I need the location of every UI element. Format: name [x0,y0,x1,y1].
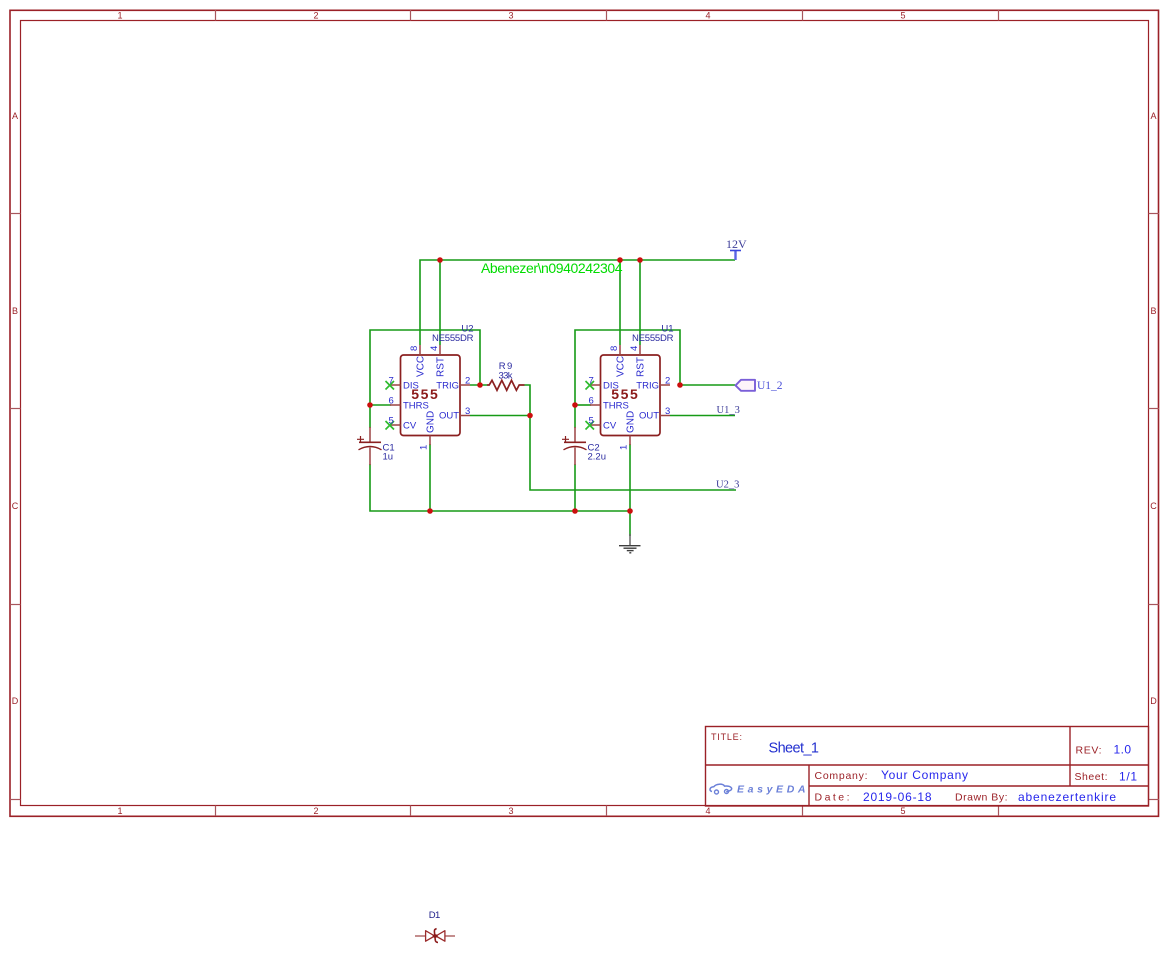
svg-text:U1_2: U1_2 [757,380,783,392]
U2 no-connect X pin7 [386,381,395,390]
wire bottom rail [430,510,630,512]
wire U1 TRIG to port [680,384,735,386]
svg-text:D1: D1 [429,910,441,921]
svg-text:NE555DR: NE555DR [632,333,674,344]
svg-text:THRS: THRS [603,401,629,412]
svg-text:4: 4 [629,346,640,351]
wire VCC top rail [420,260,735,345]
wire U2 OUT [470,415,530,417]
U1 pin 6 THRS [590,404,601,406]
svg-text:2.2u: 2.2u [588,452,607,463]
wire U2 RST to rail [439,260,441,345]
svg-text:A: A [1150,111,1156,121]
capacitor C2 [562,427,606,465]
svg-text:1: 1 [117,806,122,816]
U2 pin 6 THRS [390,404,401,406]
U2 pin 7 DIS [390,384,401,386]
power flag 12V [726,237,747,260]
svg-text:abenezertenkire: abenezertenkire [1018,790,1116,804]
svg-text:OUT: OUT [639,411,659,422]
wire U2 GND down [429,444,431,511]
wire C2 to bottom rail [574,464,576,511]
svg-text:GND: GND [626,411,637,433]
EasyEDA logo [710,784,806,796]
svg-text:2019-06-18: 2019-06-18 [863,790,932,804]
U2 pin 1 GND [429,436,431,446]
svg-text:5: 5 [900,806,905,816]
wire U1 RST to rail [639,260,641,345]
svg-text:1: 1 [419,445,430,450]
op-amp U2 body [401,355,461,436]
wire U2 THRS [370,404,391,406]
svg-text:TRIG: TRIG [636,381,659,392]
wire U1 THRS [575,404,591,406]
svg-text:RST: RST [436,357,447,377]
wire U2 TRIG to R9 [470,384,487,386]
svg-text:5: 5 [900,11,905,21]
svg-text:555: 555 [611,386,638,402]
svg-text:7: 7 [389,375,394,386]
U1 no-connect X pin7 [586,381,595,390]
svg-text:5: 5 [389,415,394,426]
op-amp U1 body [601,355,661,436]
svg-text:D: D [1150,696,1157,706]
svg-text:B: B [1150,306,1156,316]
wire U1 feedback THRS-TRIG [575,330,680,405]
U1 pin names [603,356,659,433]
wire R9 to OUT node [525,385,531,416]
svg-text:33k: 33k [499,371,513,382]
svg-text:TRIG: TRIG [436,381,459,392]
wire U1 THRS to C2 [574,405,576,428]
svg-text:3: 3 [665,406,670,417]
svg-text:1/1: 1/1 [1119,770,1137,784]
svg-text:VCC: VCC [616,356,627,377]
svg-text:12V: 12V [726,237,747,251]
svg-text:B: B [12,306,18,316]
svg-text:Sheet:: Sheet: [1075,771,1108,783]
svg-text:1: 1 [117,11,122,21]
svg-text:U2_3: U2_3 [716,480,739,491]
wire U1 VCC to rail [619,260,621,345]
svg-text:REV:: REV: [1076,744,1102,756]
svg-text:C: C [1150,501,1157,511]
svg-text:TITLE:: TITLE: [711,732,742,742]
U1 pin 1 GND [629,436,631,446]
svg-text:U1_3: U1_3 [717,405,740,416]
U1 pin 2 TRIG [660,384,670,386]
svg-text:8: 8 [609,346,620,351]
svg-text:3: 3 [508,11,513,21]
svg-text:8: 8 [409,346,420,351]
svg-text:3: 3 [465,406,470,417]
U2 pin 8 VCC [419,345,421,355]
wire U1 GND down [629,444,631,511]
wire C1 to bottom rail [370,464,430,511]
wire U2 THRS to C1 [369,405,371,428]
wire U2 feedback THRS-TRIG [370,330,480,405]
svg-text:4: 4 [705,806,710,816]
svg-text:2: 2 [313,11,318,21]
U2 pin 5 CV [390,424,401,426]
svg-text:2: 2 [665,375,670,386]
svg-text:CV: CV [603,421,617,432]
svg-text:THRS: THRS [403,401,429,412]
svg-text:3: 3 [508,806,513,816]
svg-text:NE555DR: NE555DR [432,333,474,344]
U2 pin 3 OUT [460,415,470,417]
diode D1 [415,935,426,937]
svg-text:6: 6 [389,395,394,406]
U2 pin numbers [389,346,471,450]
svg-text:CV: CV [403,421,417,432]
U2 pin 4 RST [439,345,441,355]
U1 pin 3 OUT [660,415,670,417]
U1 pin 8 VCC [619,345,621,355]
U2 no-connect X pin5 [386,421,395,430]
U1 no-connect X pin5 [586,421,595,430]
svg-text:4: 4 [429,346,440,351]
U2 pin names [403,356,459,433]
svg-text:OUT: OUT [439,411,459,422]
C1 polarity plus [357,436,364,443]
svg-text:4: 4 [705,11,710,21]
ground [619,534,641,553]
U1 pin 5 CV [590,424,601,426]
svg-text:Company:: Company: [815,770,868,782]
junction dots [367,257,683,514]
svg-text:2: 2 [313,806,318,816]
C2 polarity plus [562,436,569,443]
svg-text:Sheet_1: Sheet_1 [769,741,820,757]
svg-text:GND: GND [426,411,437,433]
svg-text:Abenezer\n0940242304: Abenezer\n0940242304 [481,260,623,276]
wire U1_3 net [670,415,735,417]
svg-text:6: 6 [589,395,594,406]
U1 pin 4 RST [639,345,641,355]
svg-text:Your Company: Your Company [881,768,968,782]
svg-text:5: 5 [589,415,594,426]
svg-text:7: 7 [589,375,594,386]
svg-text:1.0: 1.0 [1114,742,1132,756]
wire U2_3 net [530,416,736,491]
svg-text:2: 2 [465,375,470,386]
resistor R9 [487,361,525,390]
svg-text:D: D [12,696,19,706]
svg-text:RST: RST [636,357,647,377]
wire ground stem [629,511,631,536]
svg-text:1: 1 [619,445,630,450]
svg-text:1u: 1u [383,452,394,463]
U2 pin 2 TRIG [460,384,470,386]
svg-text:A: A [12,111,18,121]
U1 pin numbers [589,346,671,450]
svg-text:VCC: VCC [416,356,427,377]
capacitor C1 [357,427,395,465]
svg-text:555: 555 [411,386,438,402]
U1 pin 7 DIS [590,384,601,386]
svg-text:C: C [12,501,19,511]
svg-text:Drawn By:: Drawn By: [955,792,1008,804]
port flag U1_2 [736,380,783,392]
